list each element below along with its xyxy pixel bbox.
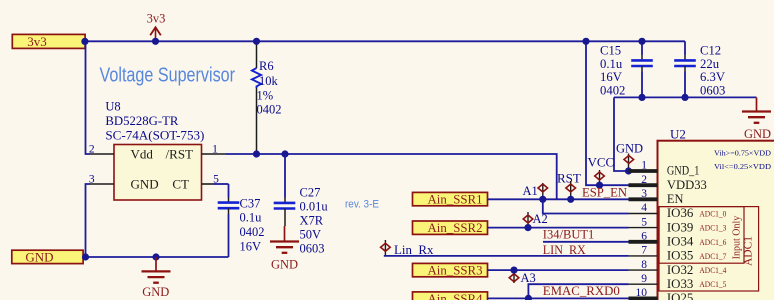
svg-text:0402: 0402 [240, 225, 265, 239]
wire Ain_SSR3 to U2 pin 8 [488, 269, 629, 271]
svg-text:X7R: X7R [300, 214, 324, 228]
svg-text:Vdd: Vdd [131, 147, 154, 162]
junction R6 top on 3v3 rail [253, 38, 260, 45]
svg-text:IO36: IO36 [667, 206, 694, 220]
wire Ain_SSR2 to U2 pin 5 [488, 227, 629, 229]
wire U8 pin5 to C37 [214, 183, 229, 185]
U8 pin 3 GND [90, 183, 114, 185]
capacitor C27 [274, 154, 296, 226]
svg-text:22u: 22u [700, 57, 720, 71]
U8 pin 5 CT [202, 183, 215, 185]
ground symbol under C27 [270, 226, 299, 253]
svg-text:0603: 0603 [700, 83, 725, 97]
svg-text:LIN_RX: LIN_RX [543, 243, 586, 257]
svg-text:ADC1_0: ADC1_0 [699, 210, 726, 219]
svg-text:8: 8 [641, 259, 647, 271]
U2 pin 7 IO35 [629, 245, 727, 263]
wire decoupling ground rail [614, 96, 757, 98]
svg-text:GND_1: GND_1 [667, 164, 700, 178]
no-ERC diamond Lin_Rx [381, 240, 391, 256]
junction VCC on 3v3 rail [582, 38, 589, 45]
svg-text:IO25: IO25 [667, 291, 694, 300]
wire branch to U2 pin 4 [543, 199, 629, 213]
svg-text:ADC1_6: ADC1_6 [699, 238, 726, 247]
svg-text:ADC1_7: ADC1_7 [699, 252, 726, 261]
port Ain_SSR1 [413, 192, 488, 207]
port Ain_SSR4 [413, 291, 488, 300]
svg-text:10k: 10k [259, 74, 279, 88]
junction ground symbol tap [152, 253, 159, 260]
junction C27 tap on /RST wire [281, 150, 288, 157]
svg-text:Ain_SSR3: Ain_SSR3 [428, 263, 483, 278]
svg-text:3v3: 3v3 [27, 34, 47, 49]
svg-text:16V: 16V [600, 70, 623, 84]
svg-text:0603: 0603 [300, 242, 325, 256]
svg-text:VDD33: VDD33 [667, 178, 707, 192]
svg-text:2: 2 [641, 174, 647, 186]
svg-text:I34/BUT1: I34/BUT1 [543, 227, 595, 241]
svg-text:GND: GND [142, 285, 169, 299]
junction RST diamond [567, 196, 574, 203]
svg-text:IO35: IO35 [667, 249, 694, 263]
svg-text:ADC1_5: ADC1_5 [699, 280, 726, 289]
svg-text:7: 7 [641, 245, 647, 257]
svg-text:C27: C27 [300, 186, 321, 200]
svg-text:IO39: IO39 [667, 220, 694, 234]
svg-text:Ain_SSR2: Ain_SSR2 [428, 220, 483, 235]
svg-text:GND: GND [271, 258, 298, 272]
capacitor C12 [674, 41, 696, 97]
svg-text:A3: A3 [521, 271, 536, 285]
svg-text:2: 2 [89, 143, 95, 155]
group box ADC1 [659, 207, 759, 291]
svg-text:Vil<=0.25×VDD: Vil<=0.25×VDD [714, 162, 772, 171]
svg-text:0.1u: 0.1u [240, 211, 263, 225]
U2 pin 10 IO25 [629, 287, 694, 300]
svg-text:C12: C12 [700, 44, 721, 58]
svg-text:9: 9 [641, 273, 647, 285]
no-ERC diamond A1 [538, 183, 548, 199]
wire Ain_SSR1 to U2 pin 3 (EN) [488, 198, 629, 200]
junction C15 bottom [638, 94, 645, 101]
no-ERC diamond RST [566, 181, 576, 199]
svg-text:0402: 0402 [600, 83, 625, 97]
port GND [12, 250, 83, 265]
svg-text:0.1u: 0.1u [600, 57, 623, 71]
U2 pin 5 IO39 [629, 216, 727, 234]
junction pin9 branch [525, 295, 532, 300]
svg-text:1: 1 [641, 160, 647, 172]
svg-text:GND: GND [616, 142, 643, 156]
svg-text:Ain_SSR1: Ain_SSR1 [428, 192, 483, 207]
svg-text:6.3V: 6.3V [700, 70, 726, 84]
junction U2 pin1 [625, 167, 632, 174]
port Ain_SSR3 [413, 263, 488, 278]
svg-text:Lin_Rx: Lin_Rx [394, 243, 434, 257]
no-ERC diamond VCC [595, 170, 605, 185]
svg-text:6: 6 [641, 231, 647, 243]
wire branch to U2 pin 9 [528, 284, 628, 298]
svg-text:A2: A2 [533, 212, 548, 226]
component U8 body [114, 145, 202, 201]
svg-text:RST: RST [557, 171, 581, 186]
svg-text:C37: C37 [240, 197, 261, 211]
IC U2 body [658, 141, 774, 300]
junction A2 diamond [524, 224, 531, 231]
svg-text:1: 1 [212, 143, 218, 155]
svg-text:Ain_SSR4: Ain_SSR4 [428, 291, 483, 300]
svg-text:CT: CT [172, 177, 189, 192]
wire U8 pin1 /RST net [226, 154, 557, 199]
wire I34/BUT1 to U2 pin 6 [543, 241, 629, 243]
no-ERC diamond A3 [509, 270, 519, 283]
svg-text:GND: GND [744, 127, 771, 141]
svg-text:50V: 50V [300, 228, 322, 242]
junction at 3v3 port [81, 38, 88, 45]
U2 pin 6 IO34 [629, 231, 727, 249]
svg-text:EMAC_RXD0: EMAC_RXD0 [543, 284, 620, 298]
wire GND rail to U2 pin 1 [614, 97, 629, 171]
no-ERC diamond A2 [523, 212, 533, 228]
svg-text:U8: U8 [105, 100, 120, 114]
wire Ain_SSR4 to U2 pin 10 [488, 297, 629, 299]
svg-text:ADC1_3: ADC1_3 [699, 224, 726, 233]
svg-text:R6: R6 [259, 59, 274, 73]
U2 pin 4 IO36 [629, 202, 727, 220]
svg-text:VCC: VCC [588, 155, 615, 170]
resistor R6 [252, 43, 261, 154]
junction A3 diamond [510, 267, 517, 274]
svg-text:rev. 3-E: rev. 3-E [345, 199, 379, 211]
junction VCC diamond [596, 182, 603, 189]
port 3v3 [12, 34, 85, 49]
svg-text:A1: A1 [523, 184, 538, 198]
group box Input Only [659, 207, 744, 264]
svg-text:ADC1_4: ADC1_4 [699, 266, 727, 275]
svg-text:3v3: 3v3 [147, 12, 166, 26]
svg-text:3: 3 [641, 188, 647, 200]
ground symbol bottom-left [142, 257, 171, 283]
svg-text:1%: 1% [257, 89, 274, 103]
svg-text:Vih>=0.75×VDD: Vih>=0.75×VDD [714, 149, 772, 158]
svg-text:IO34: IO34 [667, 235, 694, 249]
svg-text:ESP_EN: ESP_EN [582, 185, 627, 199]
svg-text:5: 5 [641, 216, 647, 228]
junction on 3v3 rail at power symbol [152, 38, 159, 45]
capacitor C15 [631, 41, 653, 97]
svg-text:IO32: IO32 [667, 263, 694, 277]
ground symbol top-right [742, 97, 771, 122]
junction R6 bottom on /RST wire [253, 150, 260, 157]
U2 pin 3 EN [629, 188, 684, 206]
svg-text:Voltage Supervisor: Voltage Supervisor [100, 65, 236, 87]
U2 pin 8 IO32 [629, 259, 728, 277]
svg-text:GND: GND [131, 177, 159, 192]
U2 pin 2 VDD33 [629, 174, 707, 192]
svg-text:EN: EN [667, 192, 684, 206]
svg-text:IO33: IO33 [667, 277, 694, 291]
wire Lin_Rx to U2 pin 7 [384, 255, 629, 257]
power port 3v3 (arrow) [147, 12, 166, 42]
wire GND bottom rail [83, 256, 228, 258]
U2 pin 9 IO33 [629, 273, 727, 291]
U8 pin 2 Vdd [90, 153, 114, 155]
wire VCC to U2 pin 2 [586, 41, 629, 185]
svg-text:C15: C15 [600, 44, 621, 58]
svg-text:4: 4 [641, 202, 647, 214]
svg-text:10: 10 [636, 287, 648, 299]
svg-text:0.01u: 0.01u [300, 200, 329, 214]
capacitor C37 [218, 184, 240, 257]
wire U8 pin3 to GND rail [86, 184, 91, 257]
svg-text:SC-74A(SOT-753): SC-74A(SOT-753) [105, 129, 204, 143]
svg-text:Input Only: Input Only [731, 216, 742, 260]
svg-text:16V: 16V [240, 240, 262, 254]
svg-text:ADC1: ADC1 [743, 236, 755, 266]
svg-text:BD5228G-TR: BD5228G-TR [105, 114, 179, 128]
svg-text:/RST: /RST [166, 147, 194, 162]
wire 3v3 top rail [85, 40, 685, 42]
port Ain_SSR2 [413, 220, 488, 235]
U8 pin 1 /RST [202, 153, 227, 155]
no-ERC diamond GND [624, 154, 634, 172]
junction A1 / pin4 branch [539, 196, 546, 203]
wire 3v3 rail to U8 pin 2 [86, 41, 91, 154]
junction C12 bottom [681, 94, 688, 101]
svg-text:U2: U2 [670, 127, 686, 142]
U2 pin 1 GND_1 [629, 160, 700, 178]
junction C15 top [638, 38, 645, 45]
junction GND port [82, 253, 89, 260]
svg-text:0402: 0402 [257, 103, 282, 117]
svg-text:GND: GND [25, 250, 53, 265]
